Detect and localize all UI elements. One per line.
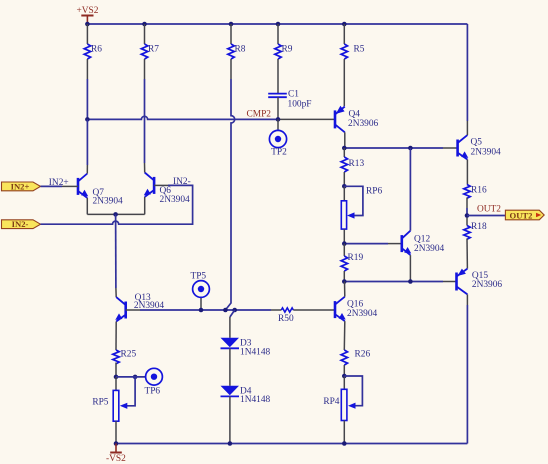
transistor Q6 <box>144 79 190 214</box>
svg-text:R5: R5 <box>354 45 365 55</box>
wire R6 to CMP2 node <box>86 79 88 119</box>
test point TP6 <box>144 368 162 396</box>
svg-text:R50: R50 <box>278 314 294 324</box>
node CMP2 <box>85 110 280 122</box>
svg-text:Q4: Q4 <box>349 109 361 119</box>
wire R8 column vertical with hop over CMP2 wire <box>225 79 234 310</box>
svg-text:1N4148: 1N4148 <box>240 395 271 405</box>
resistor R19 <box>341 244 363 282</box>
svg-text:Q5: Q5 <box>471 138 483 148</box>
test point TP2 <box>269 119 287 157</box>
node bottom rail junctions <box>114 441 347 446</box>
svg-text:Q16: Q16 <box>347 300 363 310</box>
svg-text:R19: R19 <box>348 253 364 263</box>
node R25 / RP5 / TP6 <box>114 375 146 380</box>
resistor R18 <box>464 218 487 269</box>
node OUT2 <box>465 205 502 218</box>
svg-text:RP4: RP4 <box>323 397 339 407</box>
potentiometer RP5 <box>92 377 135 444</box>
svg-text:Q12: Q12 <box>414 235 430 245</box>
svg-text:R16: R16 <box>471 186 487 196</box>
resistor R26 <box>341 350 370 377</box>
transistor Q5 <box>458 121 501 185</box>
svg-text:R9: R9 <box>282 45 293 55</box>
svg-text:2N3904: 2N3904 <box>93 197 124 207</box>
transistor Q4 <box>335 106 379 148</box>
resistor R8 <box>228 24 246 79</box>
svg-text:100pF: 100pF <box>288 99 312 109</box>
wire IN2+ to Q7 base <box>41 185 79 187</box>
test point TP5 <box>190 271 209 312</box>
wire right rail bottom <box>466 305 468 444</box>
svg-text:2N3904: 2N3904 <box>347 309 378 319</box>
node diode column jog on base row <box>223 308 237 317</box>
potentiometer RP6 <box>341 186 382 243</box>
svg-text:-VS2: -VS2 <box>106 454 126 464</box>
svg-text:C1: C1 <box>288 90 299 100</box>
wire Q13 base row <box>140 309 271 311</box>
svg-text:2N3906: 2N3906 <box>472 280 503 290</box>
svg-text:RP5: RP5 <box>92 398 108 408</box>
port IN2+ <box>2 181 41 191</box>
svg-text:2N3904: 2N3904 <box>471 148 502 158</box>
transistor Q7 <box>78 119 123 214</box>
potentiometer RP4 <box>323 376 362 444</box>
svg-text:2N3904: 2N3904 <box>160 195 191 205</box>
port OUT2 <box>505 210 544 220</box>
svg-text:CMP2: CMP2 <box>247 110 272 120</box>
resistor R5 <box>341 24 365 106</box>
capacitor C1 <box>268 90 311 120</box>
svg-text:IN2-: IN2- <box>12 219 29 229</box>
resistor R6 <box>84 24 102 79</box>
transistor Q12 <box>402 148 445 282</box>
power symbol -VS2 <box>106 444 126 464</box>
svg-text:R7: R7 <box>148 45 159 55</box>
wire OUT2 to port <box>467 215 505 217</box>
svg-text:R26: R26 <box>355 350 371 360</box>
transistor Q15 <box>457 269 503 305</box>
node R13 / RP6 <box>342 184 347 189</box>
wire top rail <box>87 23 467 25</box>
node R26 / RP4 <box>342 374 347 379</box>
wire IN2- to Q6 base with hop <box>41 185 193 224</box>
wire Q4 collector row <box>342 146 458 151</box>
svg-text:2N3904: 2N3904 <box>414 244 445 254</box>
resistor R13 <box>341 148 364 186</box>
wire Q12 base row <box>342 241 402 246</box>
transistor Q16 <box>335 282 378 351</box>
svg-text:+VS2: +VS2 <box>77 6 99 16</box>
svg-text:R6: R6 <box>91 45 102 55</box>
diode D3 <box>221 317 271 358</box>
svg-text:1N4148: 1N4148 <box>240 348 271 358</box>
svg-text:R18: R18 <box>471 222 487 232</box>
svg-text:TP2: TP2 <box>271 148 287 158</box>
wire CMP2 horizontal with hop over Q6 column <box>87 116 335 119</box>
svg-text:R8: R8 <box>235 45 246 55</box>
transistor Q13 <box>115 293 164 350</box>
svg-text:2N3906: 2N3906 <box>348 119 379 129</box>
resistor R7 <box>141 24 159 79</box>
svg-text:TP5: TP5 <box>190 271 206 281</box>
resistor R9 <box>275 24 293 94</box>
svg-text:IN2+: IN2+ <box>11 181 30 191</box>
node top rail junctions <box>85 22 347 27</box>
wire bottom rail <box>116 443 467 445</box>
svg-text:OUT2: OUT2 <box>510 210 533 220</box>
resistor R25 <box>113 350 137 377</box>
wire R19 bottom row to Q15 base <box>342 279 457 284</box>
svg-text:RP6: RP6 <box>366 186 382 196</box>
wire Q7 Q6 emitter row <box>87 212 144 297</box>
power symbol +VS2 <box>77 6 99 24</box>
svg-text:TP6: TP6 <box>144 387 160 397</box>
port IN2- <box>2 219 41 229</box>
diode D4 <box>221 348 271 443</box>
resistor R16 <box>464 185 487 209</box>
svg-text:R25: R25 <box>121 350 137 360</box>
svg-text:OUT2: OUT2 <box>477 205 501 215</box>
resistor R50 <box>271 308 335 324</box>
wire right rail top <box>466 24 468 121</box>
svg-text:R13: R13 <box>349 159 365 169</box>
